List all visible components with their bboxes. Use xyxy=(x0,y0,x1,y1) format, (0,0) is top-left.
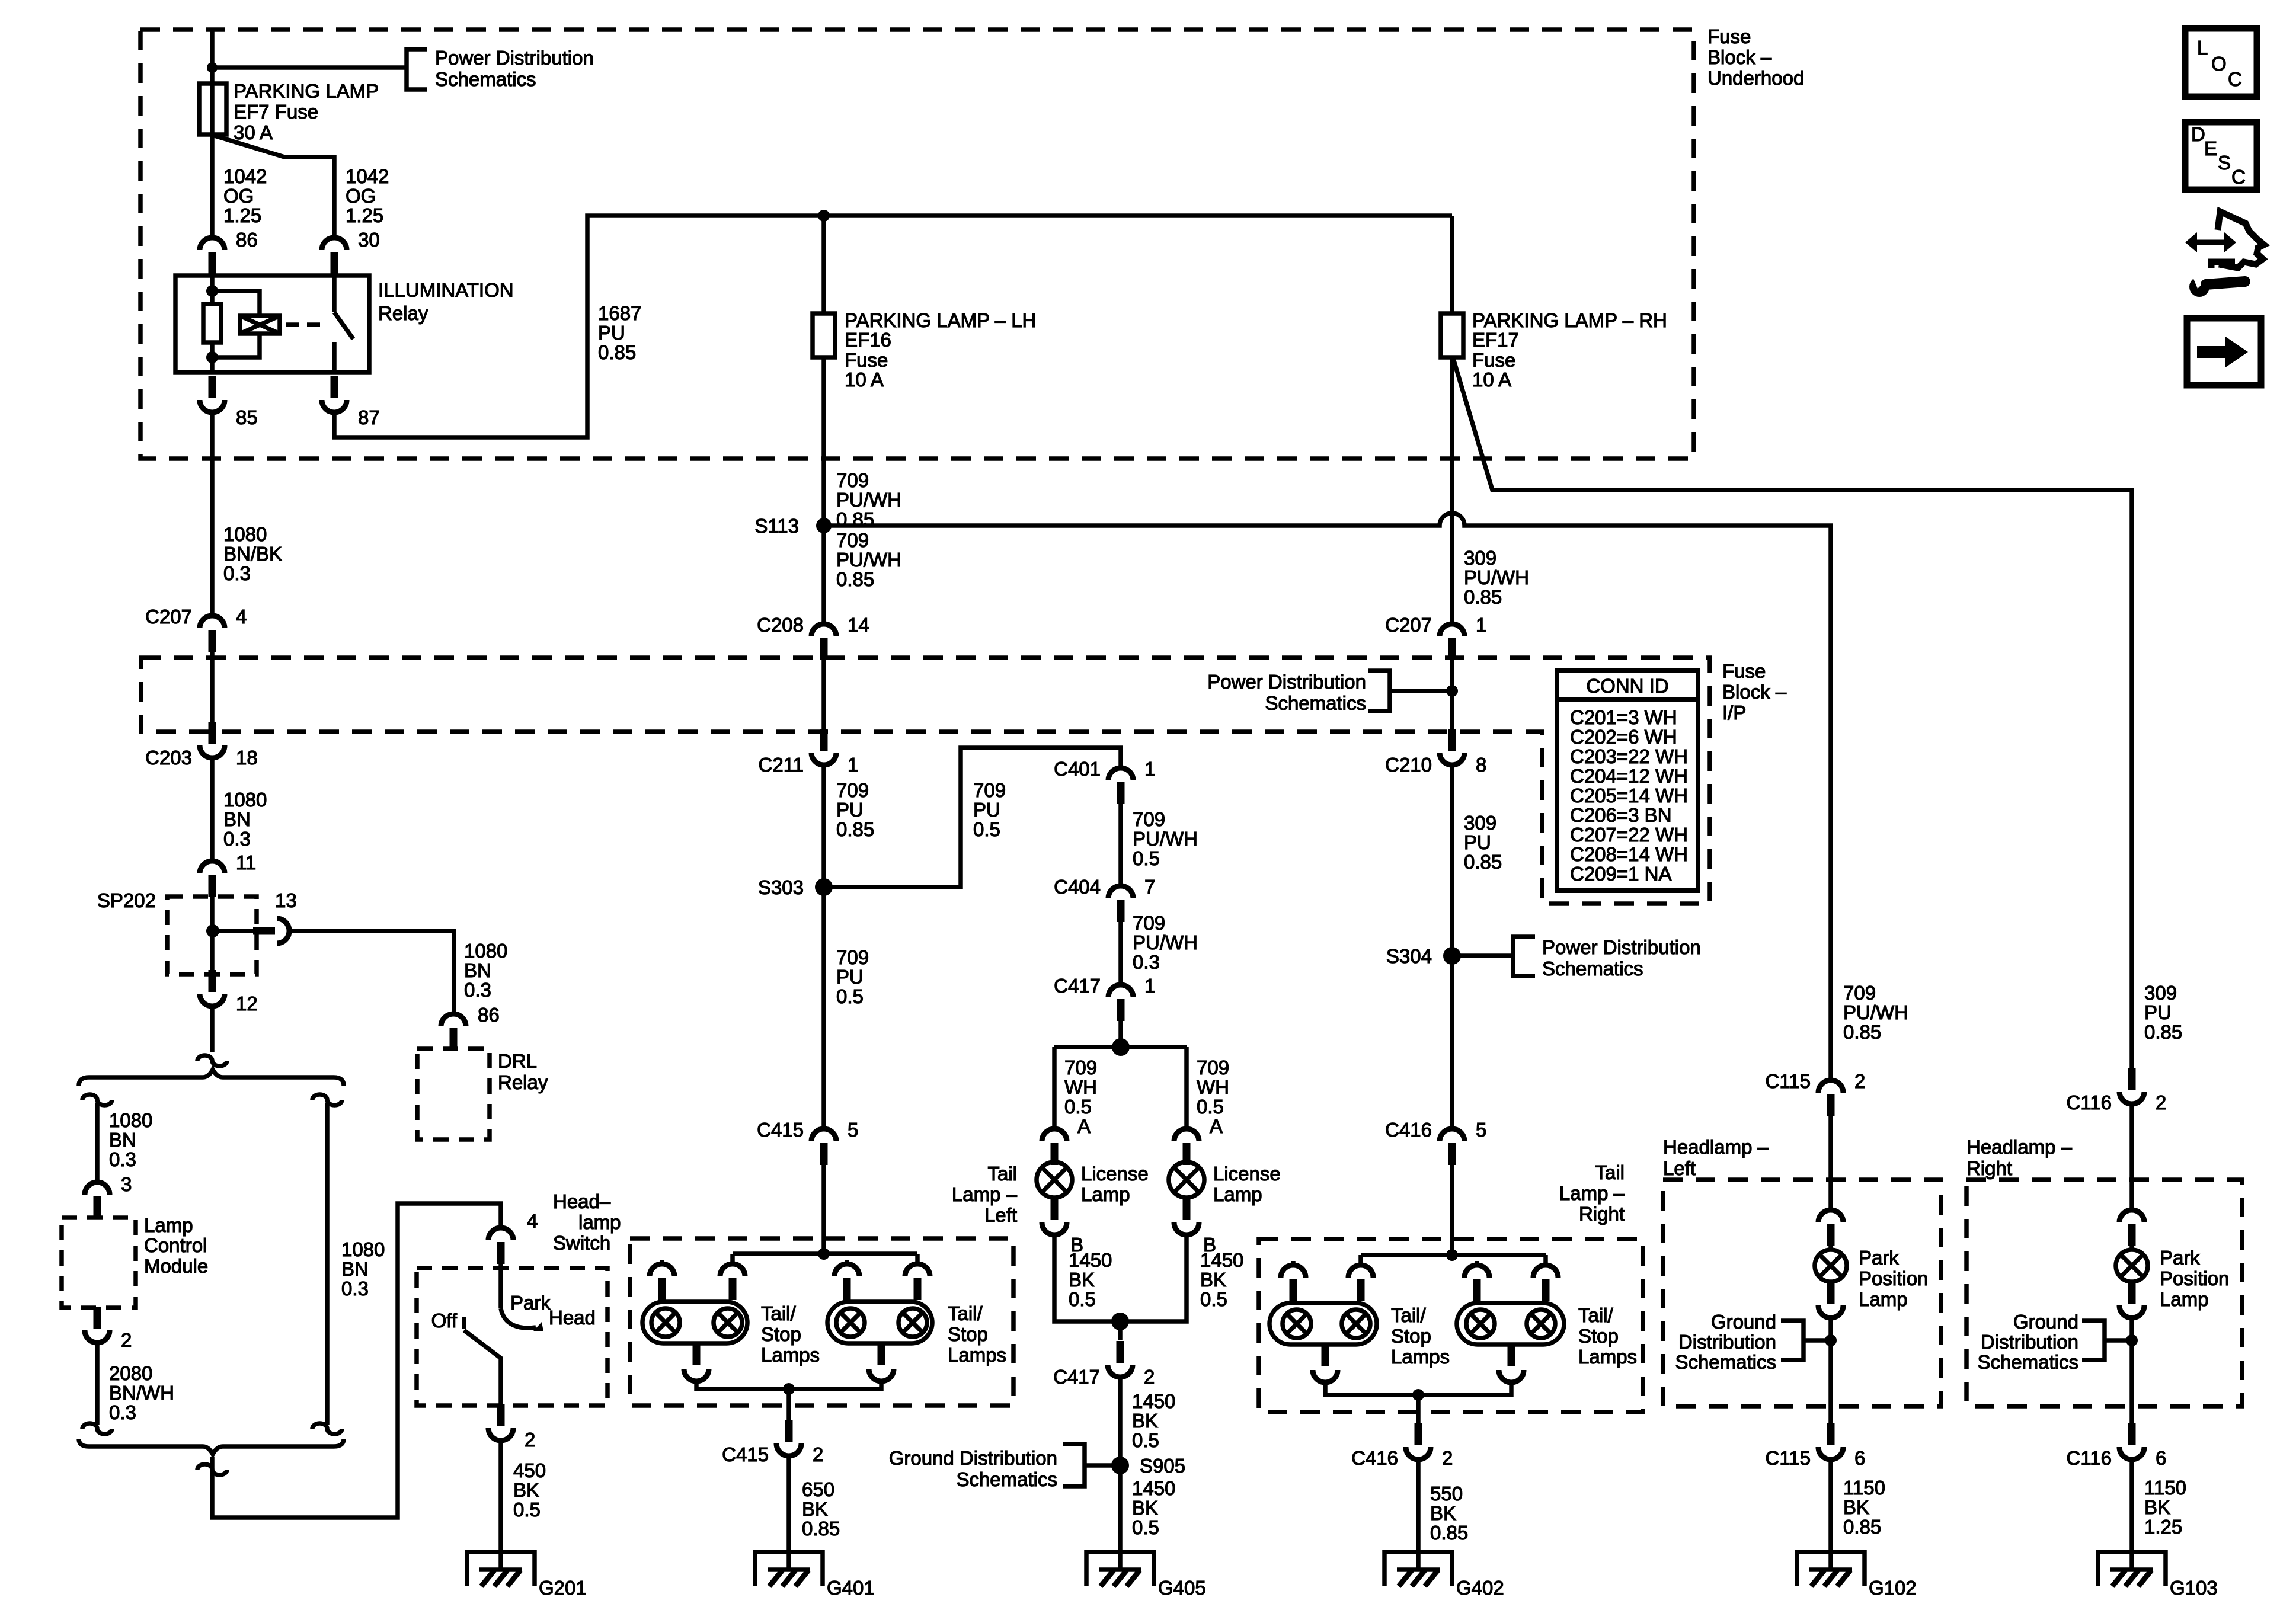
tail stop lamp left 1 xyxy=(642,1302,747,1343)
svg-text:I/P: I/P xyxy=(1722,702,1746,724)
wire EF17 down to C207-1 xyxy=(1450,357,1454,623)
svg-text:PARKING LAMP – LH: PARKING LAMP – LH xyxy=(845,309,1036,331)
right branch wire (1080 BN) xyxy=(312,1094,342,1105)
svg-text:Relay: Relay xyxy=(378,302,428,324)
relay coil branch wire xyxy=(210,276,215,304)
right license lamp pin B connector xyxy=(1183,1198,1191,1220)
node junction above EF7 xyxy=(207,62,218,73)
DRL relay pin 86 connector xyxy=(441,1014,466,1026)
svg-text:G401: G401 xyxy=(827,1577,875,1599)
svg-text:BK: BK xyxy=(2144,1496,2170,1518)
tail left lamp2 pin stub xyxy=(845,1260,849,1263)
svg-text:0.5: 0.5 xyxy=(1132,1516,1159,1538)
connector C415 pin 2 xyxy=(785,1420,793,1442)
svg-text:0.5: 0.5 xyxy=(1197,1096,1224,1118)
wire left license B to junction (1450 BK) xyxy=(1054,1236,1120,1321)
svg-text:12: 12 xyxy=(236,993,258,1014)
svg-text:PU: PU xyxy=(973,799,1000,821)
tail right bottom bus xyxy=(1325,1384,1511,1395)
connector C203 pin 18 xyxy=(209,722,216,744)
connector C417 pin 2 xyxy=(1117,1341,1124,1363)
svg-text:Schematics: Schematics xyxy=(956,1468,1057,1490)
left branch wire to LCM pin 3 (1080 BN) xyxy=(95,1103,100,1181)
headlamp switch dashed box xyxy=(417,1268,607,1406)
svg-text:Fuse: Fuse xyxy=(845,349,888,371)
svg-text:BK: BK xyxy=(1069,1269,1095,1291)
svg-text:Control: Control xyxy=(144,1234,207,1256)
connector C417 pin 1 xyxy=(1108,985,1133,997)
splice S303 xyxy=(815,878,833,896)
svg-text:10 A: 10 A xyxy=(845,369,884,391)
tail right lamp1 pin stub xyxy=(1291,1261,1296,1265)
svg-text:Lamps: Lamps xyxy=(1391,1346,1450,1368)
svg-text:C203=22 WH: C203=22 WH xyxy=(1570,745,1688,767)
svg-text:0.85: 0.85 xyxy=(1464,851,1502,873)
tail stop lamp right 2 xyxy=(1457,1303,1564,1345)
license lamp left bulb xyxy=(1052,1151,1057,1163)
tail stop lamp left 2 xyxy=(827,1302,932,1343)
svg-text:Lamp: Lamp xyxy=(1081,1183,1130,1205)
svg-text:13: 13 xyxy=(275,889,297,911)
svg-text:1080: 1080 xyxy=(223,789,267,811)
tail left lamp1 wired pin xyxy=(730,1254,735,1263)
svg-text:Park: Park xyxy=(510,1292,551,1314)
svg-text:Ground Distribution: Ground Distribution xyxy=(889,1447,1057,1469)
fuse EF7 PARKING LAMP 30A xyxy=(199,84,226,135)
svg-text:1450: 1450 xyxy=(1200,1249,1243,1271)
svg-text:PU: PU xyxy=(836,799,864,821)
wire EF17 diagonal to right park lamp feed (309 PU) xyxy=(1453,359,2132,1068)
svg-text:PU: PU xyxy=(598,322,625,344)
svg-text:Headlamp –: Headlamp – xyxy=(1663,1136,1769,1158)
svg-text:1: 1 xyxy=(1476,614,1486,636)
svg-text:Relay: Relay xyxy=(498,1071,548,1093)
wire C207-4 to C203-18 xyxy=(210,652,215,722)
svg-text:C116: C116 xyxy=(2067,1447,2112,1469)
svg-text:G201: G201 xyxy=(539,1577,587,1599)
wire to power distribution bracket xyxy=(212,65,407,70)
svg-text:Lamp: Lamp xyxy=(144,1214,193,1236)
icon shortcut double arrow xyxy=(2195,240,2226,245)
svg-text:C401: C401 xyxy=(1054,758,1101,780)
svg-text:709: 709 xyxy=(1843,982,1876,1004)
svg-text:BK: BK xyxy=(1200,1269,1226,1291)
relay resistor xyxy=(203,304,221,343)
svg-text:WH: WH xyxy=(1064,1076,1097,1098)
svg-text:2: 2 xyxy=(1144,1366,1155,1388)
svg-text:BN/WH: BN/WH xyxy=(109,1382,174,1404)
svg-text:0.85: 0.85 xyxy=(836,818,874,840)
svg-text:Schematics: Schematics xyxy=(1542,958,1643,980)
svg-text:EF17: EF17 xyxy=(1472,329,1519,351)
svg-text:0.85: 0.85 xyxy=(836,568,874,590)
node SP202 junction xyxy=(206,924,219,937)
svg-text:5: 5 xyxy=(848,1119,858,1141)
svg-text:85: 85 xyxy=(236,406,258,428)
svg-text:Right: Right xyxy=(1579,1203,1625,1225)
svg-text:Block –: Block – xyxy=(1707,46,1772,68)
svg-text:709: 709 xyxy=(836,469,869,491)
svg-text:C417: C417 xyxy=(1053,1366,1100,1388)
CONN ID table xyxy=(1557,671,1698,891)
svg-text:1: 1 xyxy=(848,754,858,776)
wire break left branch bottom xyxy=(82,1423,112,1434)
svg-text:OG: OG xyxy=(346,185,376,207)
svg-text:10 A: 10 A xyxy=(1472,369,1511,391)
svg-text:0.5: 0.5 xyxy=(1200,1288,1227,1310)
tail stop lamps right dashed box xyxy=(1259,1239,1643,1412)
svg-text:709: 709 xyxy=(1133,808,1165,830)
connector C415 pin 5 xyxy=(811,1129,836,1141)
svg-text:1080: 1080 xyxy=(109,1109,152,1131)
svg-text:1080: 1080 xyxy=(341,1238,385,1260)
svg-text:709: 709 xyxy=(1197,1057,1229,1078)
svg-text:14: 14 xyxy=(848,614,869,636)
svg-text:0.85: 0.85 xyxy=(1843,1021,1881,1043)
svg-text:0.85: 0.85 xyxy=(1430,1522,1468,1544)
svg-text:C416: C416 xyxy=(1351,1447,1398,1469)
svg-text:C208=14 WH: C208=14 WH xyxy=(1570,843,1688,865)
svg-text:BK: BK xyxy=(1843,1496,1869,1518)
svg-text:BN: BN xyxy=(223,808,251,830)
svg-text:1: 1 xyxy=(1144,758,1155,780)
tail left lamp1 pin stub xyxy=(660,1260,664,1263)
svg-text:11: 11 xyxy=(236,852,256,873)
park position lamp right bulb xyxy=(2129,1233,2134,1250)
svg-text:EF16: EF16 xyxy=(845,329,891,351)
headlamp right dashed box xyxy=(1966,1180,2242,1406)
svg-text:309: 309 xyxy=(2144,982,2177,1004)
wire LCM pin2 down (2080 BN/WH) xyxy=(95,1344,100,1425)
svg-text:30: 30 xyxy=(358,229,380,251)
svg-text:1450: 1450 xyxy=(1132,1390,1175,1412)
SP202 pin 13 connector xyxy=(213,929,254,933)
svg-text:709: 709 xyxy=(1133,912,1165,934)
svg-text:ILLUMINATION: ILLUMINATION xyxy=(378,279,514,301)
svg-text:Head–: Head– xyxy=(553,1190,611,1212)
svg-text:C115: C115 xyxy=(1766,1447,1811,1469)
svg-text:Schematics: Schematics xyxy=(1265,692,1366,714)
svg-text:C207=22 WH: C207=22 WH xyxy=(1570,824,1688,846)
relay coil box with X xyxy=(240,316,280,334)
wire C115-6 to G102 (1150 BK) xyxy=(1828,1461,1833,1570)
svg-text:1.25: 1.25 xyxy=(2144,1516,2182,1538)
relay coil loop wire xyxy=(212,291,260,357)
wire C116-2 to park lamp xyxy=(2129,1105,2134,1209)
svg-text:2: 2 xyxy=(1442,1447,1453,1469)
svg-text:0.5: 0.5 xyxy=(836,985,864,1007)
illumination relay box xyxy=(175,276,369,372)
svg-text:Tail: Tail xyxy=(987,1163,1017,1185)
right license feed wire (709 WH) xyxy=(1184,1047,1189,1128)
svg-text:1: 1 xyxy=(1144,975,1155,997)
svg-text:1080: 1080 xyxy=(464,940,507,962)
ground G402 xyxy=(1384,1552,1452,1586)
svg-text:PARKING LAMP: PARKING LAMP xyxy=(234,80,379,102)
svg-text:2: 2 xyxy=(2156,1092,2166,1113)
wire relay 87 to fuse bus (1687 PU) xyxy=(334,216,1452,437)
wire to C416-2 xyxy=(1416,1395,1421,1423)
svg-text:Lamp: Lamp xyxy=(1213,1183,1262,1205)
switch position arm with arrow xyxy=(501,1308,536,1328)
svg-text:OG: OG xyxy=(223,185,254,207)
svg-text:18: 18 xyxy=(236,747,258,769)
wire C207-1 through I/P block xyxy=(1450,660,1454,729)
svg-text:EF7 Fuse: EF7 Fuse xyxy=(234,101,318,123)
ground G405 xyxy=(1086,1552,1154,1586)
tail right lamp2 wired pin xyxy=(1543,1255,1548,1265)
svg-text:O: O xyxy=(2211,53,2227,75)
svg-text:30 A: 30 A xyxy=(234,121,273,143)
svg-text:C: C xyxy=(2228,68,2242,90)
svg-text:709: 709 xyxy=(836,946,869,968)
tail stop lamps left dashed box xyxy=(630,1238,1013,1406)
svg-text:G405: G405 xyxy=(1158,1577,1206,1599)
svg-text:Tail/: Tail/ xyxy=(1391,1304,1427,1326)
svg-text:C116: C116 xyxy=(2067,1092,2112,1113)
svg-text:Stop: Stop xyxy=(761,1323,801,1345)
svg-text:Switch: Switch xyxy=(553,1232,610,1254)
svg-text:L: L xyxy=(2197,37,2208,59)
svg-text:Left: Left xyxy=(984,1204,1017,1226)
svg-text:Tail: Tail xyxy=(1595,1161,1625,1183)
wire C401 to C404 (709 PU/WH 0.5) xyxy=(1118,804,1123,885)
svg-text:6: 6 xyxy=(1854,1447,1865,1469)
svg-text:A: A xyxy=(1077,1115,1091,1137)
svg-text:1042: 1042 xyxy=(346,165,389,187)
svg-text:PU/WH: PU/WH xyxy=(1464,566,1529,588)
svg-text:Left: Left xyxy=(1663,1157,1696,1179)
svg-text:BN: BN xyxy=(464,959,491,981)
wire C210 to S304 to C416-5 (309 PU) xyxy=(1450,766,1454,1128)
wire C208 to C211 xyxy=(821,660,826,729)
wire C116-6 to G103 (1150 BK) xyxy=(2129,1461,2134,1570)
harness brace bottom xyxy=(79,1439,344,1454)
svg-text:PU: PU xyxy=(2144,1001,2172,1023)
svg-text:86: 86 xyxy=(478,1004,500,1026)
svg-text:C209=1 NA: C209=1 NA xyxy=(1570,863,1672,885)
svg-text:0.85: 0.85 xyxy=(802,1518,840,1539)
svg-text:Schematics: Schematics xyxy=(435,68,536,90)
svg-text:BK: BK xyxy=(1430,1502,1456,1524)
svg-text:550: 550 xyxy=(1430,1483,1463,1505)
svg-text:G402: G402 xyxy=(1456,1577,1504,1599)
wire park left to C115-6 xyxy=(1828,1317,1833,1423)
svg-text:Lamps: Lamps xyxy=(1578,1346,1637,1368)
svg-text:C205=14 WH: C205=14 WH xyxy=(1570,785,1688,806)
svg-text:Lamps: Lamps xyxy=(761,1344,820,1366)
connector C207 pin 4 xyxy=(200,616,225,628)
lamp control module dashed box xyxy=(62,1218,136,1308)
svg-text:0.5: 0.5 xyxy=(1133,847,1160,869)
tail left lamp2 ground pin xyxy=(878,1343,885,1365)
svg-text:D: D xyxy=(2191,123,2205,145)
svg-text:0.3: 0.3 xyxy=(341,1278,369,1299)
icon shortcut animal head xyxy=(2218,212,2264,268)
splice S113 xyxy=(816,518,832,533)
svg-text:86: 86 xyxy=(236,229,258,251)
svg-text:7: 7 xyxy=(1144,876,1155,898)
svg-text:C201=3 WH: C201=3 WH xyxy=(1570,706,1677,728)
wire break below brace xyxy=(197,1464,227,1475)
svg-text:2: 2 xyxy=(121,1329,132,1351)
svg-text:Underhood: Underhood xyxy=(1707,67,1804,89)
svg-text:Module: Module xyxy=(144,1255,208,1277)
wire through SP202 xyxy=(210,895,215,974)
svg-text:1080: 1080 xyxy=(223,523,267,545)
wire S113 to left park lamp feed (709 PU/WH) with bump over EF17 wire xyxy=(824,513,1831,1079)
node license lamp split xyxy=(1112,1038,1130,1056)
wire junction to C417-2 xyxy=(1118,1321,1123,1340)
svg-text:0.5: 0.5 xyxy=(1132,1429,1159,1451)
svg-text:Fuse: Fuse xyxy=(1707,25,1751,47)
node license ground junction xyxy=(1111,1313,1129,1330)
park position lamp left pin connector xyxy=(1818,1210,1843,1222)
connector C208 pin 14 xyxy=(811,624,836,636)
svg-text:PU/WH: PU/WH xyxy=(836,549,901,571)
relay pin 87 connector xyxy=(331,376,338,398)
node tail right ground junction xyxy=(1412,1389,1424,1401)
svg-text:A: A xyxy=(1210,1115,1223,1137)
node tail left ground junction xyxy=(783,1383,795,1395)
svg-text:Distribution: Distribution xyxy=(1981,1331,2078,1353)
svg-text:PU: PU xyxy=(1464,831,1491,853)
headlamp left dashed box xyxy=(1663,1180,1941,1406)
node tail right feed junction xyxy=(1446,1249,1458,1261)
left license feed wire (709 WH) xyxy=(1052,1047,1057,1128)
icon forward arrow box xyxy=(2187,318,2261,385)
park position lamp right pin connector xyxy=(2119,1210,2144,1222)
svg-text:2: 2 xyxy=(525,1429,535,1451)
svg-text:Stop: Stop xyxy=(948,1323,988,1345)
splice pack SP202 dashed box xyxy=(167,897,257,974)
svg-text:0.3: 0.3 xyxy=(223,562,251,584)
svg-text:2: 2 xyxy=(1854,1070,1865,1092)
svg-text:Lamp: Lamp xyxy=(2160,1288,2209,1310)
node tail left feed junction xyxy=(818,1248,830,1260)
relay pin 86 connector xyxy=(200,238,225,250)
lamp control module pin 2 connector xyxy=(94,1307,101,1329)
svg-text:C404: C404 xyxy=(1054,876,1101,898)
svg-text:lamp: lamp xyxy=(578,1211,621,1233)
svg-text:450: 450 xyxy=(513,1459,546,1481)
wire C416-2 to G402 (550 BK) xyxy=(1416,1461,1421,1570)
svg-text:5: 5 xyxy=(1476,1119,1486,1141)
svg-text:C210: C210 xyxy=(1385,754,1432,776)
fuse block I/P dashed outline xyxy=(141,658,1710,904)
svg-text:C415: C415 xyxy=(722,1443,769,1465)
svg-text:0.5: 0.5 xyxy=(513,1499,541,1521)
lamp control module pin 3 connector xyxy=(85,1182,110,1195)
svg-text:0.85: 0.85 xyxy=(1843,1516,1881,1538)
connector C115 pin 2 xyxy=(1818,1080,1843,1093)
svg-text:C415: C415 xyxy=(757,1119,804,1141)
svg-text:BN: BN xyxy=(109,1129,136,1151)
svg-text:BK: BK xyxy=(802,1498,828,1520)
svg-text:2: 2 xyxy=(813,1443,823,1465)
svg-text:3: 3 xyxy=(121,1173,132,1195)
node ground distribution tap right xyxy=(2126,1334,2138,1346)
connector C115 pin 6 xyxy=(1827,1423,1835,1445)
svg-text:PU/WH: PU/WH xyxy=(1843,1001,1908,1023)
svg-text:Power Distribution: Power Distribution xyxy=(435,47,594,69)
svg-text:PU/WH: PU/WH xyxy=(1133,932,1198,953)
wire C115-2 to park lamp xyxy=(1828,1116,1833,1209)
node ground distribution tap left xyxy=(1825,1334,1837,1346)
svg-text:S304: S304 xyxy=(1386,945,1432,967)
connector C116 pin 6 xyxy=(2128,1423,2136,1445)
tail right top bus xyxy=(1361,1253,1546,1257)
svg-text:Power Distribution: Power Distribution xyxy=(1207,671,1366,693)
splice S905 xyxy=(1111,1457,1129,1474)
svg-text:C211: C211 xyxy=(759,754,804,776)
svg-text:Schematics: Schematics xyxy=(1977,1351,2078,1373)
wire feed into EF7 fuse xyxy=(210,30,215,84)
wire EF7 to relay pin 86 (1042 OG left) xyxy=(210,135,215,236)
svg-text:Fuse: Fuse xyxy=(1722,660,1766,682)
svg-text:BN/BK: BN/BK xyxy=(223,543,282,565)
wire break symbol xyxy=(197,1055,227,1066)
node fuse bus to EF16 xyxy=(818,210,830,222)
connector C416 pin 5 xyxy=(1440,1129,1464,1141)
tail left bottom bus xyxy=(696,1382,881,1389)
svg-text:Schematics: Schematics xyxy=(1675,1351,1776,1373)
connector C207 pin 1 xyxy=(1440,624,1464,636)
svg-text:S113: S113 xyxy=(754,515,799,537)
fuse EF17 PARKING LAMP - RH xyxy=(1450,216,1454,313)
left license lamp pin A connector xyxy=(1042,1129,1067,1141)
svg-text:Park: Park xyxy=(2160,1247,2200,1269)
wire C416-5 into tail lamp right box xyxy=(1450,1155,1454,1255)
harness brace top xyxy=(79,1070,344,1086)
svg-text:Lamp –: Lamp – xyxy=(1559,1182,1625,1204)
svg-text:C208: C208 xyxy=(757,614,804,636)
svg-text:C202=6 WH: C202=6 WH xyxy=(1570,726,1677,748)
wire relay 85 to C207-4 (1080 BN/BK) xyxy=(210,414,215,614)
svg-text:C417: C417 xyxy=(1054,975,1101,997)
svg-text:C204=12 WH: C204=12 WH xyxy=(1570,765,1688,787)
wire brace to headlamp switch pin 4 xyxy=(212,1204,501,1518)
svg-text:Tail/: Tail/ xyxy=(761,1302,797,1324)
ground G103 xyxy=(2098,1552,2166,1586)
tail right lamp2 pin stub xyxy=(1475,1261,1479,1265)
ground G201 xyxy=(467,1552,535,1586)
wire to C415-2 xyxy=(786,1389,791,1420)
park left lamp ground pin xyxy=(1827,1283,1835,1304)
svg-text:PU/WH: PU/WH xyxy=(1133,828,1198,850)
wire break left branch top xyxy=(82,1094,112,1105)
svg-text:0.5: 0.5 xyxy=(1069,1288,1096,1310)
svg-text:C206=3 BN: C206=3 BN xyxy=(1570,804,1672,826)
connector C210 pin 8 xyxy=(1448,729,1456,751)
svg-text:0.3: 0.3 xyxy=(109,1401,136,1423)
svg-text:Fuse: Fuse xyxy=(1472,349,1515,371)
svg-text:6: 6 xyxy=(2156,1447,2166,1469)
svg-text:C: C xyxy=(2231,166,2246,188)
headlamp switch pin 2 connector xyxy=(497,1404,505,1426)
svg-text:1.25: 1.25 xyxy=(346,204,383,226)
ground G102 xyxy=(1797,1552,1865,1586)
svg-text:Off: Off xyxy=(431,1310,458,1331)
connector C401 pin 1 xyxy=(1108,768,1133,780)
splice S304 xyxy=(1443,947,1461,965)
svg-text:C203: C203 xyxy=(145,747,192,769)
svg-text:309: 309 xyxy=(1464,812,1496,834)
svg-text:1150: 1150 xyxy=(2144,1477,2186,1499)
connector C404 pin 7 xyxy=(1108,886,1133,898)
svg-text:4: 4 xyxy=(236,606,247,628)
svg-text:PU: PU xyxy=(836,966,864,988)
